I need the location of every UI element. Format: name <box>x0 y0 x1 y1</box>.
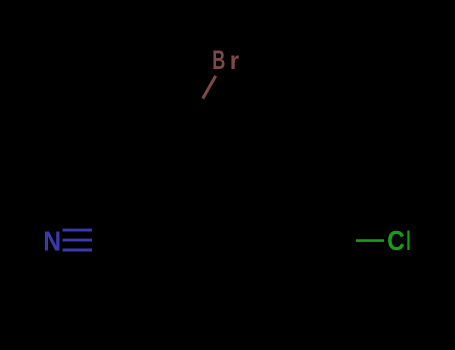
bond ring-Cl green half near Cl <box>356 239 384 242</box>
atom label Br : glyph B <box>212 44 225 74</box>
nitrile triple bond: black halves near C <box>92 230 120 250</box>
ring double bond inner lines <box>213 140 322 281</box>
benzene ring (carbon skeleton, black ink) <box>206 129 331 291</box>
svg-text:C: C <box>387 225 405 257</box>
nitrile triple bond: blue halves near N <box>63 230 92 250</box>
svg-text:r: r <box>230 48 240 76</box>
atom label Br : glyph r <box>230 48 240 76</box>
bond ring-Cl black half <box>328 239 357 242</box>
bond nitrile C to ring (black) <box>120 240 206 242</box>
svg-text:B: B <box>212 44 225 74</box>
atom label Cl : glyph C <box>387 225 405 257</box>
atom label N <box>43 225 61 257</box>
bond CH2-Br red half near Br <box>203 76 216 99</box>
bond CH2-Br black half <box>190 99 203 122</box>
svg-text:l: l <box>406 225 410 256</box>
bond CH2-ring (black) <box>190 121 212 163</box>
atom label Cl : glyph l <box>406 225 410 256</box>
svg-text:N: N <box>43 225 61 257</box>
